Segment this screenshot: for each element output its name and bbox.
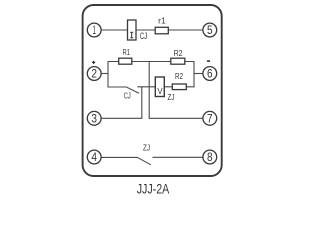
resistor R2 upper [171, 58, 185, 64]
wire: CJ current coil to r1 [136, 29, 156, 31]
wire: terminal 1 to CJ current coil [101, 29, 128, 31]
minus sign [207, 60, 210, 62]
terminal 4 [87, 150, 101, 164]
svg-text:CJ: CJ [140, 31, 147, 41]
current coil CJ (I box) [128, 20, 137, 40]
contact ZJ blade [138, 158, 151, 165]
contact CJ fixed lead [108, 86, 127, 88]
wire: top branch through R1 and R2 [108, 61, 195, 63]
svg-text:5: 5 [207, 25, 213, 37]
resistor r1 [155, 27, 168, 34]
terminal 7 [203, 111, 217, 125]
svg-text:JJJ-2A: JJJ-2A [137, 181, 170, 197]
svg-text:1: 1 [93, 25, 96, 37]
svg-text:7: 7 [207, 113, 213, 125]
label I [130, 32, 133, 38]
svg-text:R2: R2 [174, 49, 183, 58]
wire: right vertical to terminal 6 net [193, 61, 195, 87]
contact CJ blade [127, 87, 139, 93]
svg-text:CJ: CJ [124, 91, 131, 100]
terminal 6 [203, 67, 217, 81]
svg-text:2: 2 [91, 69, 97, 81]
svg-text:R2: R2 [175, 72, 183, 81]
wire: stub to terminal 6 [194, 73, 203, 75]
svg-text:4: 4 [91, 152, 97, 164]
resistor R2 lower [172, 84, 186, 90]
wire: vertical from top branch down to terminal 7 row [148, 62, 150, 119]
terminal 5 [203, 23, 217, 37]
terminal 1 [87, 23, 101, 37]
resistor R1 [119, 58, 132, 64]
svg-text:ZJ: ZJ [168, 93, 175, 102]
terminal 8 [203, 150, 217, 164]
svg-text:ZJ: ZJ [143, 144, 150, 153]
plus sign [92, 61, 95, 63]
terminal 2 [87, 67, 101, 81]
voltage coil ZJ (V box) [155, 77, 164, 97]
svg-text:V: V [157, 87, 163, 96]
contact ZJ left lead [102, 156, 139, 158]
wire: left vertical node A [107, 61, 109, 88]
relay case outline [83, 5, 222, 176]
terminal 3 [87, 111, 101, 125]
wire: terminal 2 to node A [101, 73, 109, 75]
wire: terminal 3 lead [102, 117, 143, 119]
wire: vertical from CJ contact down to terminal 3 row [141, 87, 143, 119]
svg-text:R1: R1 [123, 48, 131, 57]
wire: middle branch through ZJ coil and lower R2 [137, 86, 194, 88]
contact ZJ right lead [153, 156, 204, 158]
svg-text:3: 3 [91, 113, 97, 125]
svg-text:8: 8 [207, 152, 213, 164]
wire: terminal 7 lead [149, 117, 203, 119]
svg-text:6: 6 [207, 69, 213, 81]
wire: r1 to terminal 5 [168, 29, 203, 31]
svg-text:r1: r1 [158, 16, 166, 25]
